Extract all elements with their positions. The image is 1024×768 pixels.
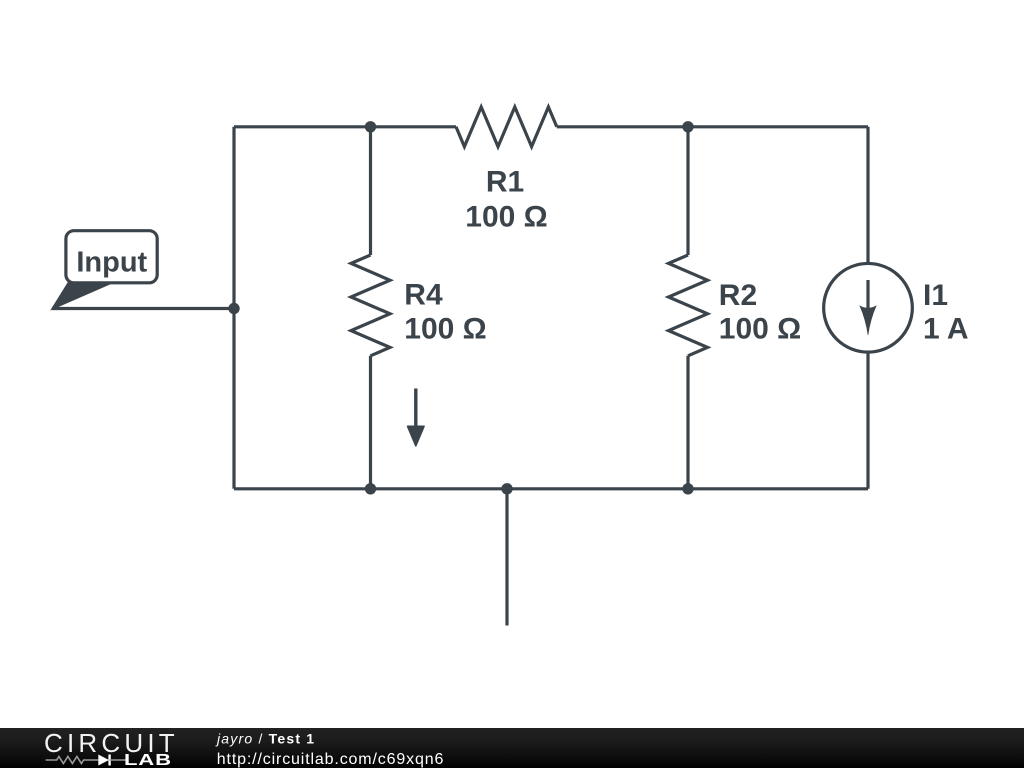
node ground junction (501, 483, 512, 494)
node R2 top (682, 121, 693, 132)
logo wire with resistor (46, 757, 99, 764)
svg-text:Input: Input (76, 246, 147, 278)
wire bottom (234, 487, 868, 490)
current source I1 arrow (859, 280, 876, 335)
node R2 bottom (682, 483, 693, 494)
svg-text:LAB: LAB (124, 752, 172, 768)
wire I1 top lead (866, 127, 869, 264)
flag Input box (66, 231, 157, 283)
wire top-left segment (234, 125, 456, 128)
current source I1 circle (824, 263, 913, 352)
wire input lead (52, 307, 234, 310)
resistor R4 (351, 255, 390, 356)
svg-text:100 Ω: 100 Ω (404, 313, 486, 346)
svg-text:100 Ω: 100 Ω (719, 313, 801, 346)
node R4 bottom (365, 483, 376, 494)
wire R4 bottom lead (369, 356, 372, 489)
flag Input tail (52, 280, 108, 309)
wire R2 bottom lead (686, 356, 689, 489)
svg-text:100 Ω: 100 Ω (465, 201, 547, 234)
svg-text:I1: I1 (923, 279, 948, 312)
svg-text:http://circuitlab.com/c69xqn6: http://circuitlab.com/c69xqn6 (217, 751, 444, 768)
wire top-right segment (557, 125, 868, 128)
annotation current arrow R4 (408, 389, 425, 447)
wire ground stub (505, 489, 508, 626)
node R4 top (365, 121, 376, 132)
logo diode (98, 755, 109, 766)
svg-text:1 A: 1 A (923, 313, 969, 346)
wire R4 top lead (369, 127, 372, 255)
svg-text:R4: R4 (404, 279, 443, 312)
resistor R1 (456, 107, 557, 147)
wire left vertical (232, 127, 235, 489)
svg-text:R1: R1 (486, 166, 524, 199)
svg-text:jayro / Test 1: jayro / Test 1 (215, 731, 315, 747)
wire R2 top lead (686, 127, 689, 255)
wire I1 bottom lead (866, 353, 869, 489)
resistor R2 (669, 255, 708, 356)
svg-text:R2: R2 (719, 279, 757, 312)
node input junction (228, 303, 239, 314)
